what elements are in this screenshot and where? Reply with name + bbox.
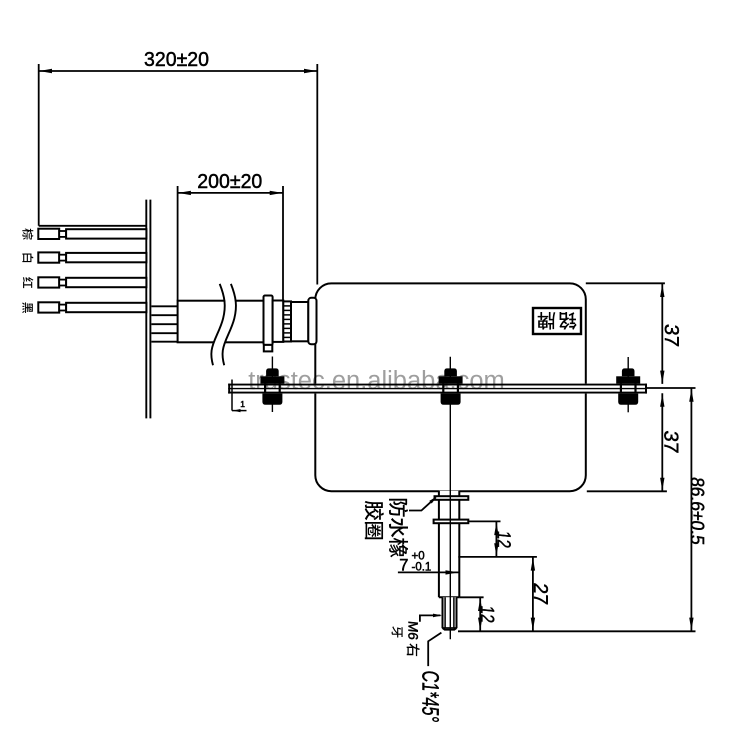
rubber grommet middle [439,368,463,404]
step shoulder [439,596,459,598]
connector barrel [273,301,284,342]
wire 1 label 棕 [22,228,33,239]
svg-text:86.6±0.5: 86.6±0.5 [686,476,707,546]
leader 防水橡胶圈 (waterproof rubber ring) [365,495,439,557]
top line above first terminal [39,225,146,227]
dimension 7 +0/-0.1 [398,550,459,574]
dimension 12 upper [468,521,513,557]
dimension 12 lower [459,597,497,631]
motor body [315,283,586,491]
connector nose [308,298,316,345]
grommet centerline right [627,357,629,412]
wire 3 label 红 [23,277,33,288]
svg-text:320±20: 320±20 [144,48,209,71]
wire 1 terminal [38,229,146,239]
output shaft assembly [434,491,469,630]
dimension 320±20 [39,48,318,285]
cable sheath [178,301,264,343]
svg-text:37: 37 [660,323,682,348]
svg-text:37: 37 [660,429,682,454]
rubber grommet left [260,368,284,404]
grommet centerline left [271,357,273,413]
svg-text:27: 27 [529,582,551,606]
wire 2 label 白 [22,253,33,262]
chamfered end C1*45 [443,628,457,630]
dimension 37 lower [587,393,682,491]
rubber grommet right [616,368,640,404]
nameplate label 铭牌 [533,308,581,334]
bottom extension line y=629.8 [458,630,696,632]
svg-text:12: 12 [493,530,514,549]
mounting plate (double line) [146,200,150,419]
svg-text:12: 12 [476,605,497,624]
dimension 37 upper [586,283,682,384]
shared extension line y=556.9 [458,556,537,558]
grommet left hole edges across rod [265,384,280,394]
svg-text:M6: M6 [406,620,421,640]
connector body [291,302,308,341]
dimension 1 (rod protrusion) [232,380,247,413]
waterproof rubber ring flange 1 [435,496,469,500]
svg-text:7: 7 [399,556,408,574]
threaded bushing ribs [283,301,291,341]
center line through shaft [449,357,451,640]
leader M6右牙 (M6 right-hand thread) [392,614,442,657]
cable gland flange [264,296,273,345]
svg-text:1: 1 [240,399,245,409]
svg-text:trustec.en.alibaba.com: trustec.en.alibaba.com [248,367,505,395]
dimension 200±20 [178,170,283,301]
leader C1*45° (chamfer) [417,633,443,724]
flange 2 [434,520,469,524]
wire 3 terminal [38,277,146,287]
wire 4 terminal [38,302,146,312]
dimension 27 [529,557,551,631]
wire 2 terminal [38,252,146,262]
wire 4 label 黑 [22,302,33,313]
gland bottom tab [264,345,273,352]
mounting rod [228,384,647,394]
cable break symbol [217,284,230,365]
svg-text:200±20: 200±20 [197,170,262,193]
wire bundle between plate and cable [151,306,177,341]
dimension 86.6±0.5 [647,388,707,631]
grommet middle hole edges across rod [443,384,458,394]
svg-text:C1*45°: C1*45° [417,669,443,723]
threaded section M6 [443,597,457,629]
grommet right hole edges across rod [621,384,636,394]
svg-text:-0.1: -0.1 [412,561,432,573]
